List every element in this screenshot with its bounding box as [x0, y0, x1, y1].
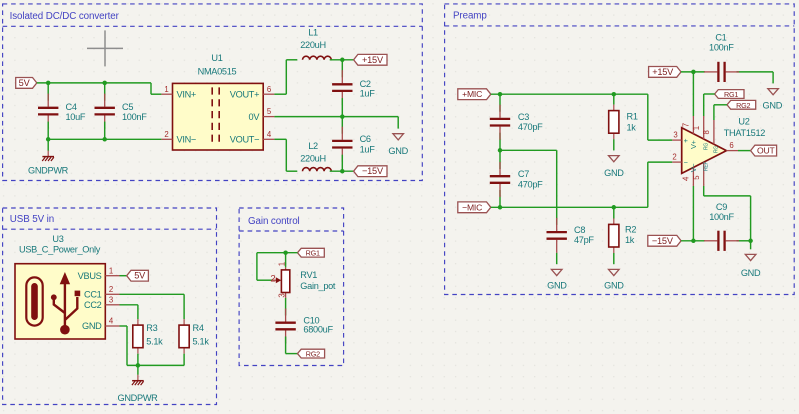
junction +MIC/R1	[612, 92, 617, 97]
label C2 1uF	[360, 79, 376, 98]
wire C3 leads	[499, 94, 501, 150]
svg-text:C6: C6	[360, 134, 371, 144]
wire pin6 to OUT	[738, 150, 751, 152]
label R2 1k	[625, 225, 636, 246]
svg-text:GND: GND	[547, 280, 567, 290]
svg-text:1: 1	[277, 262, 286, 266]
ground GNDPWR (USB)	[117, 365, 158, 402]
wire RG1 to RV1	[257, 253, 298, 281]
pin 1 RG	[692, 116, 710, 150]
global label RG1 (gain)	[298, 248, 325, 257]
wire L1 to +15V	[330, 59, 354, 61]
wire mid node to C8	[500, 150, 557, 225]
capacitor C6	[332, 127, 352, 162]
svg-text:5V: 5V	[19, 78, 31, 88]
pin 2 VIN-	[161, 130, 196, 145]
inductor L1	[303, 56, 332, 60]
svg-text:RG: RG	[714, 146, 720, 153]
svg-text:Gain_pot: Gain_pot	[300, 281, 336, 291]
svg-text:1: 1	[164, 85, 168, 94]
label C10 6800uF	[303, 315, 333, 334]
svg-text:U1: U1	[211, 53, 222, 63]
label C4 10uF	[66, 102, 86, 122]
IC U1 NMA0515	[173, 83, 264, 150]
resistor R4	[179, 319, 189, 354]
junction 5V/C4	[46, 81, 51, 86]
svg-text:R3: R3	[146, 323, 157, 333]
ground GND (C9)	[741, 241, 761, 278]
svg-text:CC2: CC2	[84, 300, 102, 310]
wire C5 top lead	[104, 83, 106, 101]
ground GND (0V)	[388, 134, 408, 157]
pin 4 V-	[682, 164, 699, 186]
svg-text:GND: GND	[604, 280, 624, 290]
svg-text:1uF: 1uF	[360, 89, 376, 99]
power label +15V (preamp)	[649, 67, 681, 78]
svg-text:−15V: −15V	[362, 166, 384, 176]
svg-text:L2: L2	[308, 141, 318, 151]
svg-text:GNDPWR: GNDPWR	[117, 393, 158, 403]
wire RV1 to C10	[285, 298, 287, 316]
wire CC2 to R3	[120, 305, 138, 319]
pin 1 VIN+	[161, 85, 196, 100]
power label -15V (preamp)	[648, 235, 681, 246]
ground GNDPWR (DC/DC)	[28, 139, 69, 175]
pin 5 0V	[249, 107, 275, 122]
resistor R3	[133, 319, 143, 354]
junction R3 bottom	[136, 363, 141, 368]
svg-text:1k: 1k	[625, 235, 635, 245]
svg-text:2: 2	[672, 153, 676, 162]
svg-text:USB 5V in: USB 5V in	[10, 214, 54, 225]
svg-text:RV1: RV1	[300, 270, 317, 280]
svg-text:8: 8	[702, 130, 711, 134]
pin 4 VOUT-	[230, 130, 275, 145]
USB receptacle icon	[26, 277, 42, 325]
svg-text:THAT1512: THAT1512	[724, 128, 766, 138]
resistor R1	[609, 94, 619, 139]
svg-text:Gain control: Gain control	[248, 216, 300, 227]
label C7 470pF	[518, 169, 543, 189]
pin 2 (inverting)	[672, 153, 687, 167]
svg-text:OUT: OUT	[757, 146, 775, 156]
ground GND (C1)	[763, 89, 783, 111]
label U3 USB_C_Power_Only	[19, 234, 101, 254]
wire C4 top lead	[47, 83, 49, 101]
junction RG1/RV1	[283, 250, 288, 255]
wire C10 to RG2	[286, 337, 298, 354]
label C1 100nF	[709, 33, 734, 53]
svg-text:7: 7	[682, 123, 691, 127]
junction -15V/pin4	[691, 239, 696, 244]
label R1 1k	[627, 112, 638, 133]
wire pin4 down to -15V	[692, 186, 694, 241]
junction 5V/C5	[102, 81, 107, 86]
svg-text:USB_C_Power_Only: USB_C_Power_Only	[19, 244, 101, 254]
svg-text:VOUT+: VOUT+	[230, 89, 259, 99]
svg-text:VIN+: VIN+	[177, 89, 196, 99]
power label 5V (USB)	[127, 270, 149, 281]
wire +15V down to pin7	[692, 72, 694, 116]
label C5 100nF	[122, 102, 147, 122]
pin 4 GND	[82, 317, 120, 332]
svg-text:GND: GND	[388, 146, 408, 156]
section box: USB 5V in	[3, 208, 217, 405]
capacitor C7	[490, 162, 510, 197]
capacitor C2	[332, 70, 352, 105]
pin 3 CC2	[84, 295, 119, 310]
label L2 220uH	[300, 141, 326, 164]
wire 0V rail	[274, 98, 398, 134]
power label 5V	[16, 78, 37, 89]
global label -MIC	[458, 202, 491, 213]
power label -15V (DC/DC)	[354, 166, 387, 177]
capacitor C3	[490, 105, 510, 140]
pin 3 (non-inverting)	[672, 131, 687, 145]
svg-text:−: −	[684, 158, 688, 167]
label C3 470pF	[518, 112, 543, 132]
label C6 1uF	[360, 134, 376, 154]
junction L1/C2	[340, 58, 345, 63]
svg-text:1: 1	[692, 126, 701, 130]
svg-text:C1: C1	[715, 33, 726, 43]
svg-text:1: 1	[109, 266, 113, 275]
svg-text:V−: V−	[689, 164, 698, 173]
svg-text:GND: GND	[741, 268, 761, 278]
svg-text:6: 6	[267, 85, 271, 94]
junction +15V/pin7	[691, 70, 696, 75]
svg-text:220uH: 220uH	[300, 40, 326, 50]
svg-text:C8: C8	[574, 225, 585, 235]
svg-text:GND: GND	[763, 101, 783, 111]
capacitor C8	[547, 218, 567, 253]
label U1 NMA0515	[198, 53, 237, 76]
wire +15V to C1	[681, 72, 773, 84]
pin 6 VOUT+	[230, 85, 275, 100]
junction GND/C4	[46, 137, 51, 142]
wire RG2 to pin8	[714, 105, 727, 120]
svg-text:+15V: +15V	[362, 55, 384, 65]
power label +15V (DC/DC)	[354, 54, 387, 65]
IC U3 USB_C_Power_Only	[15, 264, 105, 339]
wire VOUT+ to L1	[274, 60, 297, 94]
pin 8 RG	[702, 120, 720, 153]
svg-text:U2: U2	[738, 116, 749, 126]
global label RG1 (preamp)	[715, 90, 744, 99]
section box: Preamp	[445, 4, 795, 295]
svg-text:2: 2	[109, 285, 113, 294]
svg-text:47pF: 47pF	[574, 235, 594, 245]
wire -MIC rail	[491, 162, 673, 207]
ground GND (R1)	[604, 139, 624, 178]
svg-text:3: 3	[277, 293, 286, 297]
capacitor C1	[704, 62, 739, 82]
svg-text:GND: GND	[604, 168, 624, 178]
svg-text:5V: 5V	[134, 271, 146, 281]
capacitor C9	[704, 231, 739, 251]
pin 6 output	[726, 141, 738, 150]
inductor L2	[303, 168, 332, 172]
ground GND (C8)	[547, 253, 567, 291]
svg-text:V+: V+	[689, 140, 698, 149]
wire GND net USB	[120, 326, 185, 365]
junction -MIC/R2	[612, 205, 617, 210]
junction -MIC/C7	[498, 205, 503, 210]
svg-text:C5: C5	[122, 102, 133, 112]
svg-text:2: 2	[164, 130, 168, 139]
USB trident icon	[51, 272, 80, 335]
wire L2 to -15V	[330, 155, 354, 172]
svg-text:6800uF: 6800uF	[303, 324, 333, 334]
svg-text:GNDPWR: GNDPWR	[28, 166, 69, 176]
junction L2/C6	[340, 169, 345, 174]
section box: Gain control	[239, 208, 344, 366]
wire C7 leads	[499, 150, 501, 207]
label R4 5.1k	[193, 323, 210, 347]
svg-text:5.1k: 5.1k	[146, 337, 163, 347]
svg-text:U3: U3	[52, 234, 63, 244]
svg-text:RG1: RG1	[306, 249, 320, 258]
wire pin5 to C9	[704, 186, 751, 241]
svg-text:3: 3	[673, 131, 677, 140]
svg-text:RG2: RG2	[306, 350, 320, 359]
junction +MIC/C3	[498, 92, 503, 97]
ground GND (R2)	[604, 253, 624, 290]
svg-text:Isolated DC/DC converter: Isolated DC/DC converter	[10, 11, 120, 22]
svg-text:220uH: 220uH	[300, 153, 326, 163]
pin 1 VBUS	[78, 266, 120, 281]
pin numbers RV1	[270, 262, 286, 298]
wire C2 top lead	[341, 60, 343, 78]
svg-text:1k: 1k	[627, 122, 637, 132]
svg-text:R2: R2	[625, 225, 636, 235]
pin 5 REF	[692, 161, 710, 186]
junction C9/GND	[748, 239, 753, 244]
wire VOUT- to L2	[274, 139, 297, 171]
svg-text:2: 2	[270, 274, 275, 285]
svg-text:C9: C9	[716, 202, 727, 212]
svg-text:R1: R1	[627, 112, 638, 122]
svg-text:RG2: RG2	[736, 101, 750, 110]
svg-text:100nF: 100nF	[709, 212, 734, 222]
svg-text:REF: REF	[703, 161, 709, 171]
junction C3/C7	[498, 148, 503, 153]
wire +MIC rail	[491, 94, 673, 140]
svg-text:RG1: RG1	[724, 90, 738, 99]
op-amp U2 THAT1512	[682, 128, 727, 174]
svg-text:NMA0515: NMA0515	[198, 67, 237, 77]
pin 7 V+	[682, 116, 699, 149]
cursor crosshair	[87, 30, 123, 66]
label C8 47pF	[574, 225, 594, 245]
svg-text:0V: 0V	[249, 112, 261, 122]
capacitor C4	[38, 94, 58, 129]
wire GND rail	[48, 122, 161, 140]
svg-text:6: 6	[729, 141, 733, 150]
pin 2 CC1	[84, 285, 119, 300]
svg-text:100nF: 100nF	[122, 112, 147, 122]
label RV1 Gain_pot	[300, 270, 336, 291]
svg-text:−15V: −15V	[652, 236, 674, 246]
resistor R2	[609, 207, 619, 253]
capacitor C5	[95, 94, 115, 129]
label R3 5.1k	[146, 323, 163, 347]
label U2 THAT1512	[724, 116, 766, 138]
global label RG2 (preamp)	[727, 100, 756, 109]
svg-text:+15V: +15V	[652, 67, 674, 77]
svg-text:3: 3	[109, 295, 113, 304]
global label RG2 (gain)	[298, 349, 325, 358]
svg-text:100nF: 100nF	[709, 43, 734, 53]
label L1 220uH	[300, 27, 326, 50]
svg-text:C3: C3	[518, 112, 529, 122]
global label OUT	[751, 145, 777, 156]
junction 0V/C2/C6	[340, 114, 345, 119]
capacitor C10	[275, 309, 295, 344]
svg-text:+: +	[684, 136, 688, 145]
svg-text:470pF: 470pF	[518, 179, 543, 189]
potentiometer RV1	[272, 267, 290, 298]
svg-text:+MIC: +MIC	[462, 89, 482, 99]
svg-text:RG: RG	[703, 143, 709, 150]
svg-text:C4: C4	[66, 102, 77, 112]
wire RG1 to pin1	[704, 94, 715, 116]
svg-text:VOUT−: VOUT−	[230, 135, 259, 145]
svg-text:R4: R4	[193, 323, 204, 333]
svg-text:GND: GND	[82, 321, 102, 331]
svg-text:−MIC: −MIC	[462, 202, 482, 212]
svg-text:VIN−: VIN−	[177, 135, 196, 145]
svg-text:Preamp: Preamp	[453, 11, 487, 22]
svg-text:10uF: 10uF	[66, 112, 86, 122]
section box: Isolated DC/DC converter	[3, 4, 423, 181]
wire CC1 to R4	[120, 294, 185, 319]
wire -15V to C9	[681, 240, 751, 242]
svg-text:C7: C7	[518, 169, 529, 179]
global label +MIC	[458, 89, 491, 100]
svg-text:VBUS: VBUS	[78, 271, 102, 281]
label C9 100nF	[709, 202, 734, 222]
wire VBUS to 5V	[120, 275, 127, 277]
svg-text:1uF: 1uF	[360, 144, 376, 154]
svg-text:L1: L1	[308, 27, 318, 37]
junction GND/C5	[102, 137, 107, 142]
svg-text:470pF: 470pF	[518, 122, 543, 132]
svg-text:5.1k: 5.1k	[193, 337, 210, 347]
wire 5V rail	[37, 83, 162, 94]
svg-text:CC1: CC1	[84, 290, 102, 300]
